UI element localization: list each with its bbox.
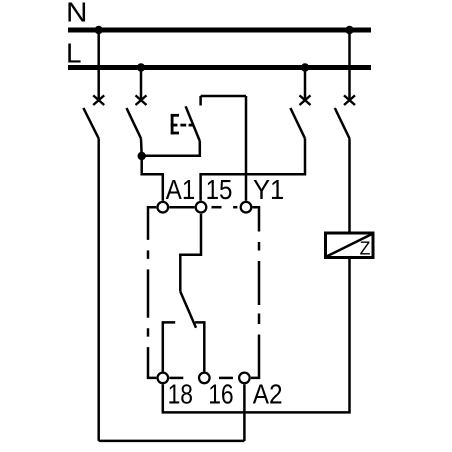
terminal A1 circle xyxy=(158,202,169,213)
device outline dash before Y1 xyxy=(233,206,237,209)
switch S3 blade xyxy=(290,108,305,139)
fuse terminal x mark of S3 xyxy=(300,95,311,105)
wire from S2 blade to junction J1 xyxy=(140,139,143,157)
pushbutton E actuator dashed link xyxy=(180,124,186,127)
device outline dashed box right edge xyxy=(251,207,259,378)
svg-text:Y1: Y1 xyxy=(253,174,284,205)
wire from S3 to terminal 15 xyxy=(201,139,305,201)
pushbutton E blade xyxy=(186,106,200,141)
wire from L bus down to fuse terminal of switch S2 xyxy=(140,68,143,101)
junction dot on L bus at x=305 xyxy=(301,63,309,71)
svg-text:L: L xyxy=(66,38,82,69)
terminal 18 circle xyxy=(158,373,169,384)
wire from J1 to pushbutton E bottom xyxy=(142,141,200,156)
wire down to terminal Y1 xyxy=(245,96,248,201)
wire from relay Z down then left to terminal 18 xyxy=(163,258,350,413)
junction dot on N bus at x=98.7 xyxy=(95,26,103,34)
junction dot on L bus at x=141 xyxy=(137,63,145,71)
pushbutton E label xyxy=(171,114,179,134)
contact fixed side to 18 xyxy=(163,322,175,371)
wire from terminal 15 down to contact arm xyxy=(180,214,201,292)
pushbutton E top terminal stub xyxy=(199,96,202,106)
junction dot on N bus at x=349.5 xyxy=(345,26,353,34)
relay coil Z box xyxy=(326,233,374,258)
svg-text:A1: A1 xyxy=(166,174,195,205)
device outline dash between 18 and 16 xyxy=(169,377,183,380)
switch S1 blade xyxy=(83,108,98,139)
junction dot J1 xyxy=(138,152,146,160)
bus L line xyxy=(68,65,371,70)
terminal A2 circle xyxy=(239,373,250,384)
wire from J1 down to terminal A1 xyxy=(142,156,163,201)
svg-text:A2: A2 xyxy=(253,379,283,410)
svg-text:N: N xyxy=(66,0,88,28)
contact fixed side to 16 xyxy=(195,322,204,371)
bottom rail wire back to switch S1 xyxy=(99,440,245,443)
pushbutton E actuator dashed link second dash xyxy=(189,124,193,127)
svg-text:18: 18 xyxy=(168,379,193,410)
wire from pushbutton E top to Y1 drop xyxy=(201,95,246,98)
terminal 16 circle xyxy=(199,373,210,384)
fuse terminal x mark of S2 xyxy=(136,95,147,105)
svg-text:15: 15 xyxy=(206,174,233,205)
contact blade from 15 xyxy=(180,292,196,328)
bus N line xyxy=(68,28,371,33)
svg-text:16: 16 xyxy=(208,379,234,410)
wire from S4 to relay Z xyxy=(348,139,351,234)
svg-text:Z: Z xyxy=(360,238,371,259)
device outline dash between 15 and Y1 xyxy=(212,206,222,209)
wire from N bus down to fuse terminal of switch S4 xyxy=(348,30,351,100)
switch S2 blade xyxy=(127,108,142,139)
terminal Y1 circle xyxy=(241,202,252,213)
device outline dashed box left edge xyxy=(148,207,156,378)
relay Z diagonal xyxy=(327,234,373,257)
wire from N bus down to fuse terminal of switch S1 xyxy=(97,30,100,100)
wire from L bus down to fuse terminal of switch S3 xyxy=(304,68,307,101)
device outline dash between 16 and A2 xyxy=(219,377,233,380)
wire from S1 down left side to bottom rail xyxy=(97,139,100,441)
terminal 15 circle xyxy=(196,202,207,213)
fuse terminal x mark of S4 xyxy=(344,95,355,105)
switch S4 blade xyxy=(335,108,350,139)
wire from terminal A2 down to bottom rail xyxy=(243,384,246,441)
wire terminal A1 to terminal 15 xyxy=(169,206,194,209)
fuse terminal x mark of S1 xyxy=(93,95,104,105)
